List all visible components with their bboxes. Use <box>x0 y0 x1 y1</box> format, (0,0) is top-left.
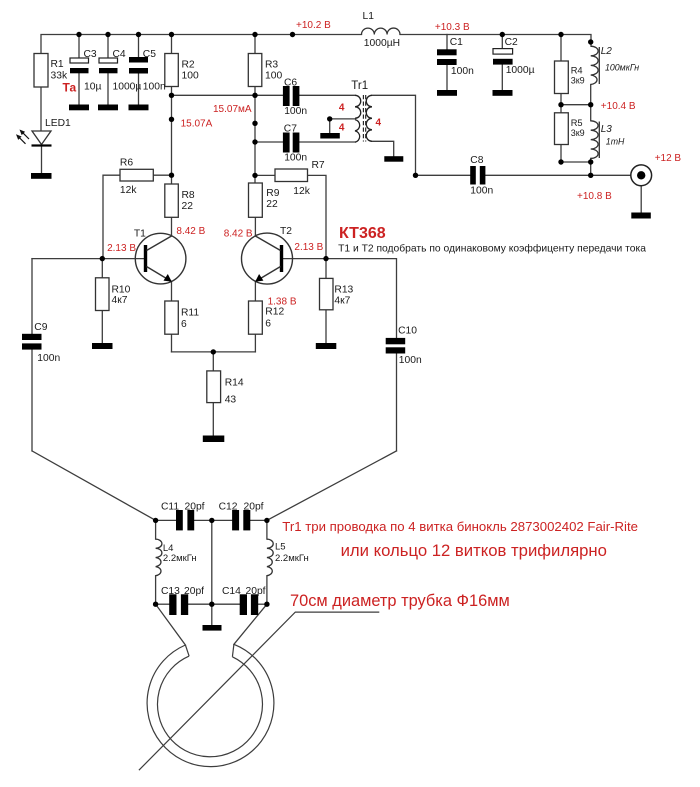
wire emitter join R11 R12 <box>171 334 173 352</box>
wire R6 left to T1 base node <box>103 175 120 258</box>
ground C1 <box>437 90 457 96</box>
node R3 column mid <box>252 121 257 126</box>
wire R4 bottom to L2 bottom node <box>561 104 591 106</box>
resistor R1 <box>34 54 48 88</box>
svg-text:10µ: 10µ <box>84 81 101 92</box>
wire Tr1 center tap <box>330 118 355 120</box>
wire L5 bottom <box>266 576 268 605</box>
wire top supply bus right of L1 <box>400 35 591 47</box>
resistor R8 <box>165 184 179 217</box>
svg-text:1000µ: 1000µ <box>113 81 142 92</box>
svg-text:L2: L2 <box>601 46 613 57</box>
ground C3 <box>69 105 89 111</box>
wire R6 right to R8 column <box>153 174 171 176</box>
wire T2 collector <box>254 217 256 236</box>
node L2 bottom <box>588 102 593 107</box>
capacitor C7 plates <box>283 133 290 153</box>
svg-text:100n: 100n <box>399 355 422 366</box>
capacitor C3 plates <box>70 58 89 63</box>
transistor T1 <box>135 233 186 284</box>
svg-text:33k: 33k <box>51 70 68 81</box>
wire R13 to ground <box>325 310 327 343</box>
node bus +10.2V <box>290 32 295 37</box>
svg-text:C6: C6 <box>284 77 297 88</box>
ground +12V connector <box>631 213 651 219</box>
svg-text:20pf: 20pf <box>184 586 204 597</box>
svg-text:4: 4 <box>376 118 382 129</box>
wire T1 base line <box>32 258 144 260</box>
node L3 bottom <box>588 159 593 164</box>
wire C8 to +12V connector <box>485 174 631 176</box>
transformer Tr1 core <box>363 95 365 142</box>
resistor R3 <box>248 54 261 87</box>
wire L4 column <box>155 520 157 539</box>
wire node R2 bottom to C6 <box>172 94 284 96</box>
node bus C3 <box>76 32 81 37</box>
transformer Tr1 secondary winding <box>366 95 372 141</box>
capacitor C8 plates <box>470 166 476 185</box>
svg-text:R13: R13 <box>334 285 353 296</box>
wire Tr1 secondary top to output node <box>372 95 416 175</box>
svg-text:C7: C7 <box>284 124 297 135</box>
svg-text:T2: T2 <box>280 226 292 237</box>
svg-text:R12: R12 <box>265 306 284 317</box>
wire C3 stub <box>78 35 80 59</box>
wire L4 bottom <box>155 576 157 605</box>
svg-text:22: 22 <box>266 199 278 210</box>
inductor L1 <box>362 28 400 34</box>
svg-text:2.13 В: 2.13 В <box>294 242 323 253</box>
svg-text:C4: C4 <box>113 49 126 60</box>
svg-text:8.42 В: 8.42 В <box>176 226 205 237</box>
wire tank top row left <box>156 519 176 521</box>
wire R4 stub top <box>560 35 562 62</box>
svg-text:C10: C10 <box>398 326 417 337</box>
svg-text:C2: C2 <box>505 37 518 48</box>
wire R7 right to T2 base node <box>308 175 327 258</box>
svg-text:R10: R10 <box>112 285 131 296</box>
wire LED1 to ground <box>41 146 43 173</box>
svg-text:+10.8 В: +10.8 В <box>577 191 612 202</box>
node T1 base <box>100 256 105 261</box>
node L2 top <box>588 39 593 44</box>
svg-text:C14: C14 <box>222 586 241 597</box>
wire R5 bottom <box>560 145 562 163</box>
svg-text:2.13 В: 2.13 В <box>107 243 136 254</box>
wire R4 bottom <box>560 94 562 105</box>
transformer Tr1 primary winding <box>355 95 361 142</box>
svg-text:100n: 100n <box>37 353 60 364</box>
resistor R9 <box>249 183 263 217</box>
node bus C4 <box>105 32 110 37</box>
svg-text:C13: C13 <box>161 586 180 597</box>
node tank top center <box>209 518 214 523</box>
svg-text:C3: C3 <box>84 49 97 60</box>
resistor R10 <box>96 278 110 311</box>
svg-text:100мкГн: 100мкГн <box>605 62 639 72</box>
wire R12 to join <box>254 334 256 352</box>
svg-text:8.42 В: 8.42 В <box>224 228 253 239</box>
node output Tr1 <box>413 173 418 178</box>
node tank top right <box>264 518 269 523</box>
ground LED1 <box>31 173 52 179</box>
wire C10 down <box>396 353 398 451</box>
wire T1 collector <box>171 217 173 236</box>
resistor R6 <box>120 169 153 181</box>
capacitor C13 plates <box>169 594 176 615</box>
svg-text:1mH: 1mH <box>606 137 625 147</box>
node T2 base R13 <box>323 256 328 261</box>
wire L2 bottom to L3 top <box>590 85 592 121</box>
svg-text:R9: R9 <box>266 188 279 199</box>
svg-text:L3: L3 <box>601 124 613 135</box>
diameter leader line <box>139 612 379 770</box>
svg-text:22: 22 <box>182 201 194 212</box>
svg-text:1.38 В: 1.38 В <box>268 297 297 308</box>
wire R10 stub <box>101 259 103 278</box>
svg-text:20pf: 20pf <box>185 502 205 513</box>
wire R2 stub top <box>171 35 173 54</box>
wire C7 to Tr1 primary bottom <box>299 141 355 143</box>
wire antenna feed left <box>156 604 186 645</box>
wire C10 diagonal to tank right node <box>267 451 397 521</box>
wire C6 to Tr1 primary top <box>299 94 355 96</box>
node tank bottom right <box>264 602 269 607</box>
wire R5 stub top <box>560 105 562 113</box>
resistor R14 <box>207 371 221 403</box>
capacitor C6 plates <box>283 86 290 106</box>
wire T2 emitter to R12 <box>254 282 256 302</box>
svg-text:C5: C5 <box>143 49 156 60</box>
capacitor C10 plates <box>386 338 406 344</box>
svg-text:100n: 100n <box>284 152 307 163</box>
node R5 bottom <box>558 159 563 164</box>
wire Tr1 tap to ground <box>329 119 331 133</box>
transistor T2 <box>242 233 293 284</box>
svg-text:T1: T1 <box>134 228 146 239</box>
svg-text:R11: R11 <box>181 307 199 318</box>
wire tank bottom row left <box>156 603 170 605</box>
capacitor C5 plates <box>129 57 148 63</box>
svg-text:LED1: LED1 <box>45 118 71 129</box>
wire C4 to ground <box>107 73 109 105</box>
capacitor C14 plates <box>240 594 247 615</box>
wire L5 column <box>266 520 268 539</box>
capacitor C4 plates <box>99 58 118 63</box>
wire R14 to ground <box>212 403 214 436</box>
LED1 arrows <box>22 132 29 139</box>
inductor L3 <box>591 121 600 159</box>
ground C2 <box>493 90 513 96</box>
ground R13 <box>316 343 337 349</box>
svg-text:3к9: 3к9 <box>571 128 585 138</box>
svg-text:Tr1 три проводка по 4 витка би: Tr1 три проводка по 4 витка бинокль 2873… <box>282 519 638 534</box>
svg-text:15.07A: 15.07A <box>181 119 213 130</box>
svg-text:12k: 12k <box>293 186 310 197</box>
svg-text:100: 100 <box>182 71 199 82</box>
wire node R3 to C7 <box>255 141 283 143</box>
svg-text:R4: R4 <box>571 65 583 75</box>
ground Tr1 secondary <box>384 156 403 162</box>
wire L3 bottom to output line <box>590 158 592 175</box>
wire R3 stub top <box>254 35 256 54</box>
svg-text:4к7: 4к7 <box>112 295 128 306</box>
wire tank top row middle <box>194 519 232 521</box>
antenna loop ring <box>147 644 274 766</box>
wire node R3 to R7 left <box>255 174 275 176</box>
wire base line to C9 <box>31 259 33 334</box>
svg-text:Та: Та <box>63 81 77 95</box>
node tank bottom center <box>209 602 214 607</box>
svg-text:R1: R1 <box>51 59 64 70</box>
wire tank bottom row middle <box>188 603 240 605</box>
inductor L5 <box>267 539 273 576</box>
svg-text:2.2мкГн: 2.2мкГн <box>163 553 197 564</box>
wire tank center column <box>211 520 213 604</box>
svg-text:C9: C9 <box>34 322 47 333</box>
svg-text:R6: R6 <box>120 158 133 169</box>
svg-text:R8: R8 <box>182 190 195 201</box>
node tank bottom left <box>153 602 158 607</box>
resistor R7 <box>275 169 308 182</box>
svg-text:100n: 100n <box>284 106 307 117</box>
svg-text:C1: C1 <box>450 37 463 48</box>
svg-text:4к7: 4к7 <box>334 295 350 306</box>
ground tank center <box>203 625 222 631</box>
resistor R11 <box>165 301 179 334</box>
wire R1 to LED1 <box>40 87 42 131</box>
svg-text:КТ368: КТ368 <box>339 225 386 242</box>
connector +12V output <box>631 165 652 186</box>
capacitor C12 plates <box>232 510 239 530</box>
node Tr1 tap <box>327 116 332 121</box>
wire C9 diagonal to tank left node <box>32 451 156 521</box>
wire C1 stub <box>446 35 448 50</box>
wire tank bottom row right <box>258 603 267 605</box>
svg-text:100n: 100n <box>451 66 474 77</box>
svg-text:20pf: 20pf <box>246 586 266 597</box>
svg-text:12k: 12k <box>120 185 137 196</box>
wire C9 down <box>31 350 33 451</box>
svg-text:R3: R3 <box>265 60 278 71</box>
LED LED1 symbol <box>32 131 51 145</box>
svg-text:L5: L5 <box>275 542 286 553</box>
wire R13 stub <box>325 259 327 279</box>
wire emitter join horizontal <box>172 351 256 353</box>
wire tank top row right <box>251 519 267 521</box>
svg-text:R5: R5 <box>571 118 583 128</box>
svg-text:43: 43 <box>225 394 237 405</box>
ground Tr1 center tap <box>320 133 340 139</box>
svg-text:C8: C8 <box>470 155 483 166</box>
node R4 L2 <box>558 102 563 107</box>
node R2 column 15.07A <box>169 117 174 122</box>
svg-text:C12: C12 <box>219 502 238 513</box>
svg-text:R2: R2 <box>182 60 195 71</box>
ground C4 <box>98 105 118 111</box>
wire C1 to ground <box>446 65 448 90</box>
wire join to R14 <box>212 352 214 371</box>
svg-text:3к9: 3к9 <box>571 75 585 85</box>
svg-text:1000µ: 1000µ <box>506 65 535 76</box>
resistor R4 <box>555 61 569 94</box>
resistor R12 <box>249 301 263 334</box>
wire connector to ground <box>640 186 642 213</box>
wire Tr1 secondary bottom to ground <box>372 141 394 156</box>
node output L3 <box>588 173 593 178</box>
node bus R3 <box>252 32 257 37</box>
wire C5 to ground <box>138 74 140 105</box>
svg-text:L1: L1 <box>363 11 375 22</box>
wire R3 bottom column to R9 <box>254 87 256 184</box>
node bus R4 <box>558 32 563 37</box>
inductor L4 <box>156 539 162 576</box>
resistor R5 <box>555 113 569 145</box>
node R3 bottom <box>252 93 257 98</box>
svg-text:100n: 100n <box>470 186 493 197</box>
svg-text:C11: C11 <box>161 502 179 513</box>
wire tank center to ground <box>211 604 213 625</box>
inductor L2 <box>591 46 600 84</box>
node bus C5 <box>136 32 141 37</box>
wire top supply bus left <box>41 35 362 54</box>
node emitter join <box>211 349 216 354</box>
svg-text:15.07мА: 15.07мА <box>213 104 252 115</box>
svg-text:+10.2 В: +10.2 В <box>296 20 331 31</box>
ground R14 <box>203 436 225 443</box>
resistor R2 <box>165 54 179 87</box>
svg-text:Tr1: Tr1 <box>351 80 368 92</box>
svg-text:+10.3 В: +10.3 В <box>435 22 470 33</box>
resistor R13 <box>320 278 334 309</box>
svg-text:100: 100 <box>265 71 282 82</box>
ground R10 <box>92 343 113 349</box>
capacitor C2 plates <box>493 49 513 55</box>
wire R5 bottom to L3 bottom node <box>561 161 591 163</box>
node R7 R9 <box>252 173 257 178</box>
svg-text:+12 В: +12 В <box>655 153 682 164</box>
svg-text:6: 6 <box>181 319 187 330</box>
wire C3 to ground <box>78 73 80 105</box>
ground C5 <box>129 105 149 111</box>
node bus R2 <box>169 32 174 37</box>
wire C2 to ground <box>501 65 503 90</box>
wire output node to C8 <box>416 174 471 176</box>
svg-text:4: 4 <box>339 122 345 133</box>
wire C2 stub <box>501 35 503 49</box>
wire R2 bottom column to R8 <box>171 87 173 185</box>
svg-text:100n: 100n <box>143 81 166 92</box>
svg-text:70см диаметр трубка Ф16мм: 70см диаметр трубка Ф16мм <box>290 592 510 610</box>
svg-text:2.2мкГн: 2.2мкГн <box>275 553 309 564</box>
wire R10 to ground <box>101 311 103 344</box>
capacitor C1 plates <box>437 49 457 55</box>
wire T1 emitter to R11 <box>171 282 173 302</box>
node bus C2 <box>500 32 505 37</box>
node R2 bottom <box>169 93 174 98</box>
svg-text:R14: R14 <box>225 377 244 388</box>
wire C4 stub <box>107 35 109 59</box>
capacitor C9 plates <box>22 334 42 340</box>
svg-text:R7: R7 <box>312 160 325 171</box>
wire T2 base line <box>283 259 396 338</box>
wire C5 stub <box>138 35 140 58</box>
capacitor C11 plates <box>176 510 183 530</box>
wire antenna feed right <box>234 604 267 644</box>
svg-text:4: 4 <box>339 102 345 113</box>
node C7 <box>252 139 257 144</box>
svg-text:6: 6 <box>265 318 271 329</box>
svg-text:20pf: 20pf <box>244 502 264 513</box>
svg-text:1000µH: 1000µH <box>364 38 400 49</box>
svg-text:Т1 и Т2 подобрать по одинаково: Т1 и Т2 подобрать по одинаковому коэффиц… <box>338 243 646 255</box>
node R6 R8 <box>169 173 174 178</box>
svg-text:+10.4 В: +10.4 В <box>601 101 636 112</box>
svg-text:или кольцо 12 витков трифилярн: или кольцо 12 витков трифилярно <box>341 541 607 560</box>
node tank top left <box>153 518 158 523</box>
